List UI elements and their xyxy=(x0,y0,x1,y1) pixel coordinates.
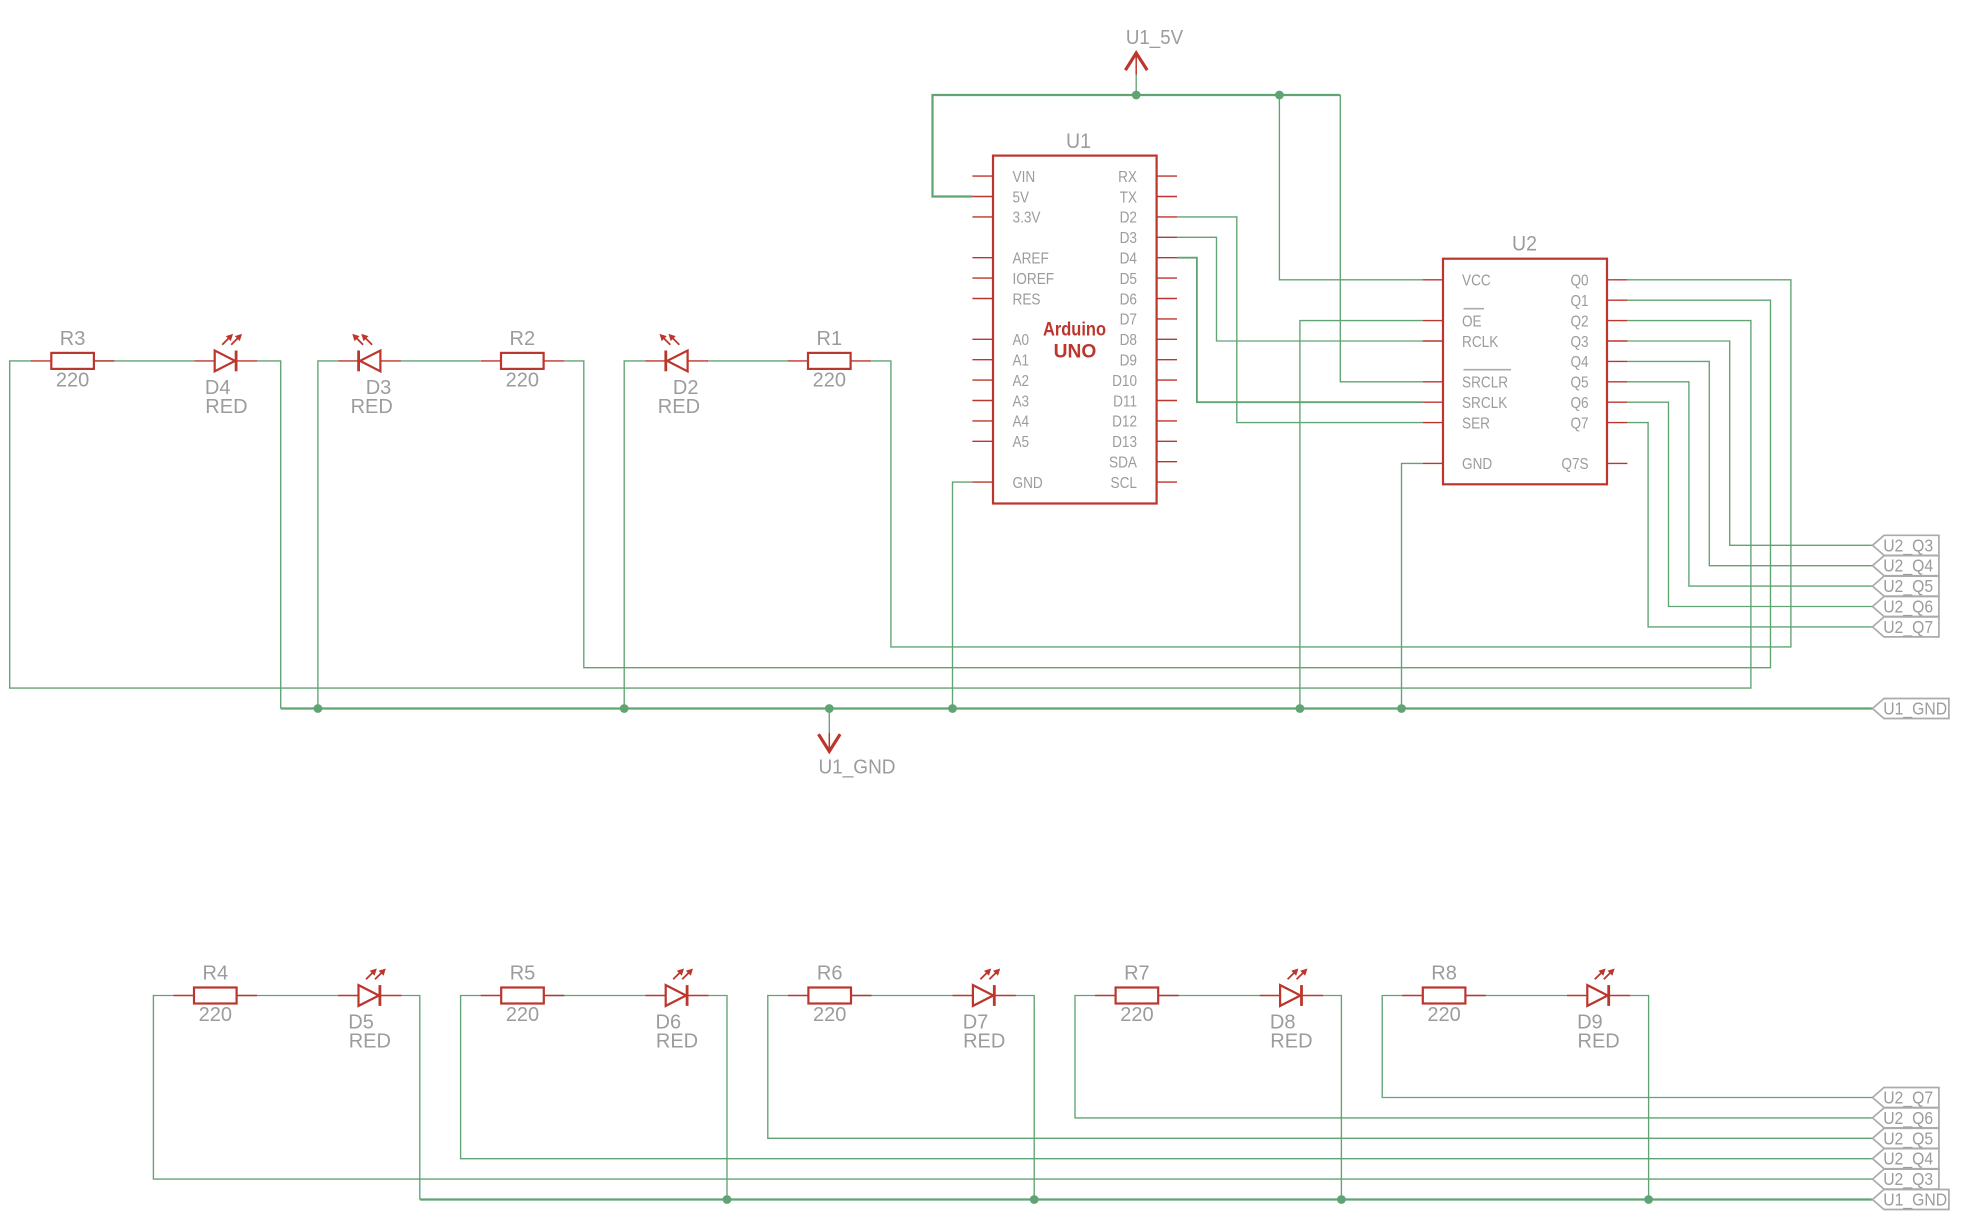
svg-text:R6: R6 xyxy=(817,963,843,985)
LED D5 xyxy=(338,969,401,1006)
wire net D2 to U2 SER xyxy=(1177,217,1423,423)
svg-text:GND: GND xyxy=(1013,475,1043,492)
svg-text:RED: RED xyxy=(205,396,247,418)
svg-text:Q1: Q1 xyxy=(1571,293,1589,310)
junction on 5V rail at VCC branch xyxy=(1275,91,1284,100)
U2 pin Q1 xyxy=(1607,299,1627,301)
svg-text:RED: RED xyxy=(963,1031,1005,1053)
net flag U2_Q7 xyxy=(1873,1088,1939,1109)
U1 pin D13 xyxy=(1157,440,1177,442)
U2 pin OE xyxy=(1423,320,1443,322)
net flag U1_GND xyxy=(1873,1190,1949,1211)
svg-text:220: 220 xyxy=(1120,1004,1153,1026)
U1 pin D5 xyxy=(1157,277,1177,279)
resistor R5 xyxy=(481,988,564,1004)
svg-text:U1_GND: U1_GND xyxy=(1883,699,1947,720)
svg-text:R2: R2 xyxy=(510,328,536,350)
svg-text:SER: SER xyxy=(1462,415,1490,432)
U2 OE overline xyxy=(1464,308,1485,310)
svg-text:U1_5V: U1_5V xyxy=(1126,27,1184,49)
wire U1_5V rail drop to U2 SRCLR pin xyxy=(1340,95,1422,382)
IC U2 shift register box xyxy=(1443,259,1607,485)
svg-text:A4: A4 xyxy=(1013,414,1030,431)
wire D9 cathode down to ground rail xyxy=(1630,996,1648,1200)
U1 pin D4 xyxy=(1157,257,1177,259)
net flag U2_Q3 xyxy=(1873,1169,1939,1190)
svg-text:A2: A2 xyxy=(1013,373,1030,390)
svg-text:220: 220 xyxy=(813,370,846,392)
svg-text:Q2: Q2 xyxy=(1571,313,1589,330)
svg-text:SRCLR: SRCLR xyxy=(1462,375,1508,392)
svg-text:5V: 5V xyxy=(1013,189,1030,206)
U1 pin 3.3V xyxy=(972,216,993,218)
junction ground symbol on rail xyxy=(825,704,834,713)
U1 pin A2 xyxy=(972,379,993,381)
U2 pin Q7 xyxy=(1607,422,1627,424)
svg-text:U2_Q3: U2_Q3 xyxy=(1883,535,1933,556)
svg-text:U2_Q7: U2_Q7 xyxy=(1883,617,1933,638)
svg-text:D13: D13 xyxy=(1112,434,1137,451)
resistor R7 xyxy=(1095,988,1178,1004)
U2 pin Q3 xyxy=(1607,340,1627,342)
svg-text:U2: U2 xyxy=(1512,232,1537,255)
svg-text:U2_Q5: U2_Q5 xyxy=(1883,1128,1933,1149)
U1 pin A3 xyxy=(972,400,993,402)
wire U2 OE pin down to ground rail xyxy=(1300,321,1423,709)
svg-text:RED: RED xyxy=(351,396,393,418)
U1 pin RES xyxy=(972,298,993,300)
svg-text:RED: RED xyxy=(656,1031,698,1053)
U1 pin D9 xyxy=(1157,359,1177,361)
svg-text:U2_Q3: U2_Q3 xyxy=(1883,1169,1933,1190)
svg-text:D11: D11 xyxy=(1113,393,1137,410)
svg-text:RX: RX xyxy=(1118,169,1137,186)
svg-text:Q3: Q3 xyxy=(1571,334,1589,351)
U1 pin D11 xyxy=(1157,400,1177,402)
wire R4 to D5 xyxy=(237,995,338,997)
svg-text:U2_Q5: U2_Q5 xyxy=(1883,576,1933,597)
U2 pin RCLK xyxy=(1423,340,1443,342)
svg-text:D3: D3 xyxy=(1120,230,1137,247)
wire U1 GND pin down to ground rail xyxy=(953,482,973,708)
svg-text:UNO: UNO xyxy=(1054,341,1097,363)
wire net U2_Q3 from U2 to flag xyxy=(1627,341,1872,545)
svg-text:Q4: Q4 xyxy=(1571,354,1589,371)
svg-text:AREF: AREF xyxy=(1013,251,1049,268)
LED D8 xyxy=(1260,969,1323,1006)
U1 pin A4 xyxy=(972,420,993,422)
U2 SRCLR overline xyxy=(1464,369,1512,371)
svg-text:R5: R5 xyxy=(510,963,536,985)
junction U2 GND on rail xyxy=(1397,704,1406,713)
wire net U2_Q7 from U2 to flag xyxy=(1627,423,1872,627)
wire net U2_Q2: R3 loop to U2 Q2 xyxy=(10,321,1751,688)
svg-text:RED: RED xyxy=(1270,1031,1312,1053)
svg-text:A1: A1 xyxy=(1013,353,1030,370)
svg-text:D6: D6 xyxy=(1120,291,1137,308)
wire net U2_Q0: R1 loop to U2 Q0 xyxy=(871,280,1791,647)
U1 pin TX xyxy=(1157,196,1177,198)
LED D4 xyxy=(194,334,257,371)
U1 pin AREF xyxy=(972,257,993,259)
svg-text:A0: A0 xyxy=(1013,332,1030,349)
junction D6 cathode on bottom rail xyxy=(723,1195,732,1204)
svg-text:U1_GND: U1_GND xyxy=(818,757,895,779)
U1 pin VIN xyxy=(972,175,993,177)
wire net D3 to U2 RCLK xyxy=(1177,237,1423,341)
U2 pin Q2 xyxy=(1607,320,1627,322)
wire net U1_5V: U1 5V pin to top rail to U2 SRCLR xyxy=(933,95,1341,197)
svg-text:220: 220 xyxy=(506,370,539,392)
U1 pin D12 xyxy=(1157,420,1177,422)
wire bottom ground rail U1_GND xyxy=(420,1198,1873,1200)
svg-text:R4: R4 xyxy=(203,963,229,985)
svg-text:SDA: SDA xyxy=(1109,455,1137,472)
svg-text:D9: D9 xyxy=(1120,353,1137,370)
U1 pin GND xyxy=(972,481,993,483)
U1 pin A5 xyxy=(972,440,993,442)
svg-text:U1_GND: U1_GND xyxy=(1883,1190,1947,1211)
wire net U2_Q4 from U2 to flag xyxy=(1627,361,1872,565)
svg-text:RES: RES xyxy=(1013,291,1041,308)
net flag U2_Q3 xyxy=(1873,535,1939,556)
svg-text:R8: R8 xyxy=(1431,963,1457,985)
U2 pin Q0 xyxy=(1607,279,1627,281)
wire net to R5 from flag line xyxy=(461,996,1873,1159)
wire D2 to R1 xyxy=(707,360,788,362)
wire R6 to D7 xyxy=(851,995,952,997)
wire D7 cathode down to ground rail xyxy=(1016,996,1034,1200)
svg-text:220: 220 xyxy=(56,370,89,392)
svg-text:D10: D10 xyxy=(1112,373,1137,390)
resistor R6 xyxy=(788,988,871,1004)
U1 pin D3 xyxy=(1157,236,1177,238)
wire R8 to D9 xyxy=(1466,995,1567,997)
svg-text:VCC: VCC xyxy=(1462,273,1491,290)
U1 pin A1 xyxy=(972,359,993,361)
svg-text:220: 220 xyxy=(813,1004,846,1026)
U1 pin D7 xyxy=(1157,318,1177,320)
resistor R4 xyxy=(174,988,257,1004)
U2 pin Q7S xyxy=(1607,462,1627,464)
LED D7 xyxy=(953,969,1016,1006)
net flag U2_Q6 xyxy=(1873,597,1939,618)
U1 pin RX xyxy=(1157,175,1177,177)
IC U1 Arduino UNO box xyxy=(993,156,1157,504)
svg-text:D5: D5 xyxy=(1120,271,1137,288)
svg-text:D2: D2 xyxy=(1120,210,1137,227)
power symbol U1_5V xyxy=(1125,53,1147,95)
wire D2 cathode to ground rail xyxy=(624,361,645,709)
svg-text:A5: A5 xyxy=(1013,434,1030,451)
wire net to R6 from flag line xyxy=(768,996,1873,1139)
U1 pin D10 xyxy=(1157,379,1177,381)
net flag U2_Q5 xyxy=(1873,1128,1939,1149)
LED D9 xyxy=(1567,969,1630,1006)
wire net U2_Q6 from U2 to flag xyxy=(1627,402,1872,606)
wire net to R8 from flag line xyxy=(1382,996,1872,1098)
wire net to R4 from flag line xyxy=(153,996,1872,1180)
wire R5 to D6 xyxy=(544,995,645,997)
resistor R1 xyxy=(788,353,871,369)
wire net U2_Q5 from U2 to flag xyxy=(1627,382,1872,586)
svg-text:D8: D8 xyxy=(1120,332,1137,349)
net flag U2_Q7 xyxy=(1873,617,1939,638)
U2 pin SRCLR xyxy=(1423,381,1443,383)
net flag U1_GND xyxy=(1873,699,1949,720)
junction U2 OE on rail xyxy=(1296,704,1305,713)
svg-text:Q5: Q5 xyxy=(1571,375,1589,392)
svg-text:RED: RED xyxy=(1578,1031,1620,1053)
ground symbol U1_GND xyxy=(819,709,841,752)
svg-text:R7: R7 xyxy=(1124,963,1150,985)
svg-text:Q0: Q0 xyxy=(1571,273,1589,290)
wire D5 cathode down to ground rail xyxy=(402,996,420,1200)
junction D8 cathode on bottom rail xyxy=(1337,1195,1346,1204)
wire D4 cathode down to ground rail xyxy=(258,361,281,709)
svg-text:R1: R1 xyxy=(817,328,843,350)
svg-text:IOREF: IOREF xyxy=(1013,271,1055,288)
wire R3 to D4 xyxy=(94,360,194,362)
wire D3 to R2 xyxy=(401,360,481,362)
svg-text:OE: OE xyxy=(1462,313,1482,330)
U2 pin GND xyxy=(1423,462,1443,464)
net flag U2_Q6 xyxy=(1873,1108,1939,1129)
wire U1_5V branch to U2 VCC pin xyxy=(1279,95,1422,280)
U1 pin 5V xyxy=(972,196,993,198)
U1 pin D8 xyxy=(1157,338,1177,340)
net flag U2_Q4 xyxy=(1873,1149,1939,1170)
svg-text:A3: A3 xyxy=(1013,393,1030,410)
svg-text:Arduino: Arduino xyxy=(1043,318,1106,340)
U1 pin D6 xyxy=(1157,298,1177,300)
svg-text:3.3V: 3.3V xyxy=(1013,210,1041,227)
junction D9 cathode on bottom rail xyxy=(1644,1195,1653,1204)
svg-text:TX: TX xyxy=(1120,189,1138,206)
svg-text:D4: D4 xyxy=(1120,251,1137,268)
svg-text:RED: RED xyxy=(349,1031,391,1053)
svg-text:D7: D7 xyxy=(1120,312,1137,329)
svg-text:SRCLK: SRCLK xyxy=(1462,395,1508,412)
svg-text:R3: R3 xyxy=(60,328,86,350)
wire ground rail U1_GND xyxy=(281,707,1873,709)
LED D2 xyxy=(645,334,708,371)
wire net U2_Q1: R2 loop to U2 Q1 xyxy=(564,300,1771,668)
U2 pin VCC xyxy=(1423,279,1443,281)
LED D3 xyxy=(338,334,401,371)
svg-text:SCL: SCL xyxy=(1111,475,1138,492)
svg-text:220: 220 xyxy=(506,1004,539,1026)
junction D7 cathode on bottom rail xyxy=(1030,1195,1039,1204)
U2 pin Q6 xyxy=(1607,401,1627,403)
resistor R8 xyxy=(1402,988,1485,1004)
wire net to R7 from flag line xyxy=(1075,996,1873,1118)
U1 pin D2 xyxy=(1157,216,1177,218)
U1 pin SCL xyxy=(1157,481,1177,483)
LED D6 xyxy=(645,969,708,1006)
svg-text:U2_Q7: U2_Q7 xyxy=(1883,1088,1933,1109)
svg-text:Q6: Q6 xyxy=(1571,395,1589,412)
svg-text:U2_Q6: U2_Q6 xyxy=(1883,597,1933,618)
svg-text:RCLK: RCLK xyxy=(1462,334,1499,351)
resistor R2 xyxy=(481,353,564,369)
junction on 5V rail at power symbol xyxy=(1132,91,1141,100)
net flag U2_Q4 xyxy=(1873,556,1939,577)
svg-text:Q7S: Q7S xyxy=(1561,456,1588,473)
U2 pin SRCLK xyxy=(1423,401,1443,403)
junction D2 cathode on ground rail xyxy=(620,704,629,713)
svg-text:GND: GND xyxy=(1462,456,1492,473)
U1 pin SDA xyxy=(1157,461,1177,463)
wire D3 cathode to ground rail xyxy=(318,361,338,709)
wire U2 GND pin down to ground rail xyxy=(1402,463,1423,708)
U1 pin A0 xyxy=(972,338,993,340)
U1 pin IOREF xyxy=(972,277,993,279)
svg-text:U2_Q6: U2_Q6 xyxy=(1883,1108,1933,1129)
resistor R3 xyxy=(31,353,114,369)
svg-text:220: 220 xyxy=(1427,1004,1460,1026)
wire D8 cathode down to ground rail xyxy=(1323,996,1341,1200)
U2 pin Q4 xyxy=(1607,360,1627,362)
svg-text:U2_Q4: U2_Q4 xyxy=(1883,556,1933,577)
svg-text:VIN: VIN xyxy=(1013,169,1036,186)
svg-text:U1: U1 xyxy=(1066,130,1091,153)
svg-text:Q7: Q7 xyxy=(1571,415,1589,432)
svg-text:220: 220 xyxy=(199,1004,232,1026)
svg-text:RED: RED xyxy=(658,396,700,418)
wire R7 to D8 xyxy=(1159,995,1260,997)
wire D6 cathode down to ground rail xyxy=(709,996,727,1200)
U2 pin SER xyxy=(1423,422,1443,424)
junction D3 cathode on ground rail xyxy=(314,704,323,713)
U2 pin Q5 xyxy=(1607,381,1627,383)
junction U1 GND on rail xyxy=(948,704,957,713)
net flag U2_Q5 xyxy=(1873,576,1939,597)
svg-text:D12: D12 xyxy=(1112,414,1137,431)
wire net D4 to U2 SRCLK xyxy=(1177,258,1423,403)
svg-text:U2_Q4: U2_Q4 xyxy=(1883,1149,1933,1170)
